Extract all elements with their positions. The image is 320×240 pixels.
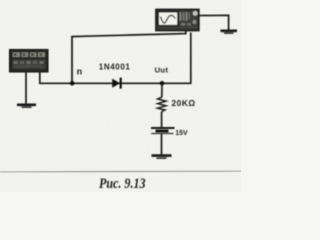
svg-text:15V: 15V [175, 130, 188, 137]
svg-text:n: n [77, 66, 83, 76]
svg-text:Uut: Uut [155, 65, 169, 74]
svg-text:20KΩ: 20KΩ [172, 98, 196, 108]
svg-text:Рис. 9.13: Рис. 9.13 [99, 176, 146, 192]
svg-text:1N4001: 1N4001 [99, 62, 131, 71]
